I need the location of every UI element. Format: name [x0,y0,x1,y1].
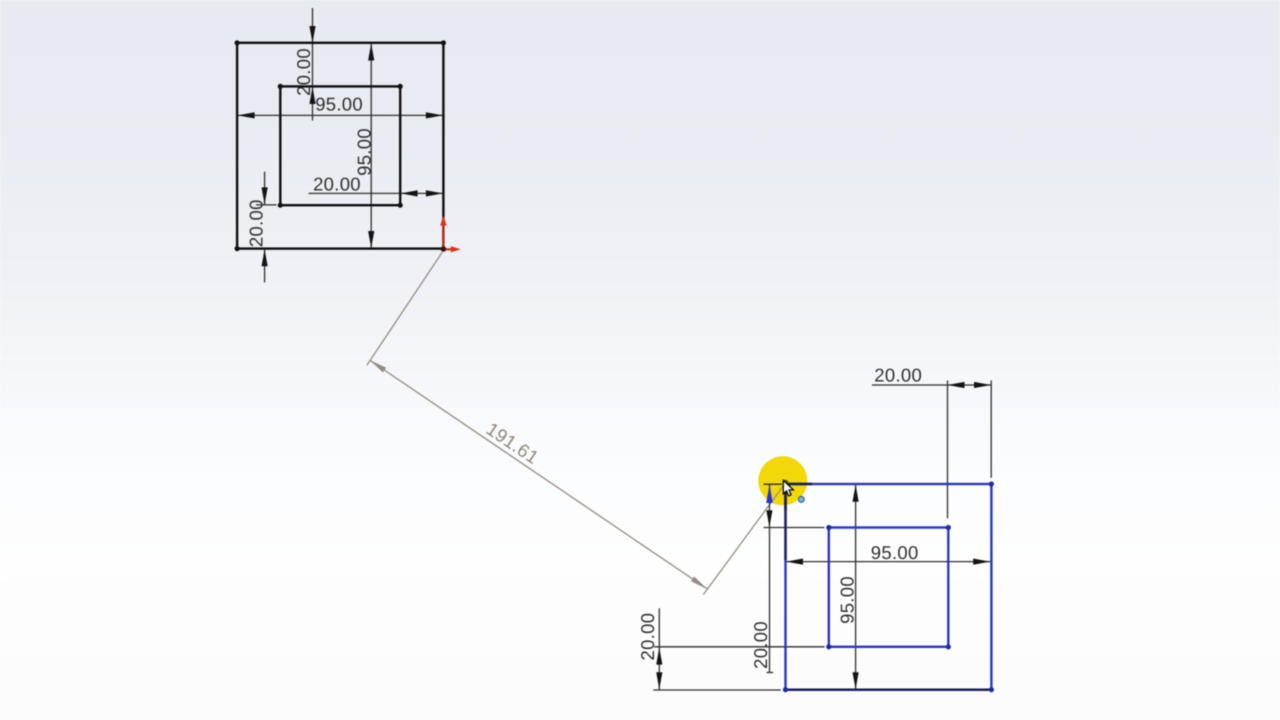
svg-text:95.00: 95.00 [315,94,363,115]
svg-text:20.00: 20.00 [750,621,771,669]
svg-text:95.00: 95.00 [837,576,858,624]
svg-text:20.00: 20.00 [637,613,658,661]
svg-text:95.00: 95.00 [871,542,919,563]
svg-text:20.00: 20.00 [874,365,922,386]
svg-text:20.00: 20.00 [313,174,361,195]
svg-text:20.00: 20.00 [293,48,314,96]
svg-text:20.00: 20.00 [246,199,267,247]
svg-text:95.00: 95.00 [354,128,375,176]
